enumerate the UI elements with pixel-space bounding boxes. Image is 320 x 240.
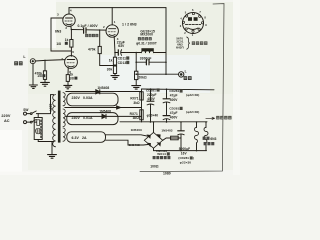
triode V1a (lower SRPP, 1/2 6N3) [65,56,78,69]
svg-text:(CD281: (CD281 [178,156,189,160]
svg-text:AC: AC [4,119,10,123]
ground chassis [48,155,57,159]
svg-text:230V 0.03A: 230V 0.03A [72,96,93,100]
node D junction [114,65,116,67]
wire to chassis ground [51,142,53,155]
svg-text:400V: 400V [147,97,155,101]
svg-text:1N5408: 1N5408 [99,110,111,114]
wire SRPP feedback loop [51,18,71,51]
svg-text:4: 4 [70,8,72,12]
wire center tap [65,107,142,109]
svg-text:): ) [193,156,194,160]
svg-text:220V: 220V [49,104,53,112]
svg-text:3300pF: 3300pF [140,57,152,61]
wire V2 cathode to node C [113,37,116,53]
transformer T1 secondary 3 winding [63,128,65,141]
inductor L1 0.31/1000T with core [141,48,153,51]
resistor R5 1k [113,57,116,65]
svg-text:400V: 400V [170,116,178,120]
svg-text:230V 0.01A: 230V 0.01A [72,116,93,120]
node G junction [135,61,137,63]
resistor R9 RX71 3k [140,110,143,120]
svg-text:L: L [185,70,187,74]
wire C1 to V2 grid [86,29,106,31]
svg-text:2: 2 [65,26,67,30]
svg-text:220V: 220V [1,114,10,118]
svg-text:6: 6 [72,50,74,54]
wire node A to C1 [71,29,83,31]
svg-text:6H3Π: 6H3Π [176,45,184,49]
resistor R8 RX71 3k [140,92,143,100]
transformer T1 core [58,91,61,143]
label film cap CJK [85,34,98,37]
svg-text:φ0.31 / 1000T: φ0.31 / 1000T [136,42,157,46]
capacitor C1 0.1uF/400V coupling [83,28,85,33]
capacitor C3 3300pF [146,60,149,65]
svg-text:1080: 1080 [163,171,171,175]
transformer T1 primary winding [53,95,56,147]
svg-text:7: 7 [61,57,63,61]
switch SW [27,114,31,123]
wire node C to C2 [115,52,118,54]
svg-text:1 / 2 6N3: 1 / 2 6N3 [122,23,137,27]
heater winding symbol 2 [205,122,207,127]
ground V1a [64,85,72,88]
wire R3 to ground [67,81,69,85]
secondary 3 loop 6.3V 2A [67,132,106,143]
svg-text:1k: 1k [109,58,113,62]
wire node E down to R7 [135,62,137,71]
label pinout CJK [192,41,208,45]
label neon lamp CJK vertical [40,120,42,138]
resistor R3 1k cathode [66,75,69,82]
node H junction output tap [135,73,137,75]
output terminal [179,72,184,77]
wire L1 to right rail [154,52,166,54]
transformer T1 secondary 2 winding [63,109,65,127]
label rectifier CJK row2 [153,156,171,159]
svg-text:CD281: CD281 [146,88,156,92]
wire output line [136,73,178,75]
wire input node down to R1 [44,60,46,70]
wire V2 plate lead [111,8,113,25]
wire bridge DC- rail [154,148,207,150]
arrow to other channel [206,117,215,119]
svg-text:2: 2 [103,25,105,29]
wire 6.3V to bridge AC2 [106,140,149,145]
label heaters CJK filament [204,142,215,145]
node I junction [165,73,167,75]
svg-text:(φ22×30): (φ22×30) [186,93,199,97]
rectifier wire HV1 [66,91,142,93]
wire V1a cathode [67,68,69,75]
wire V1b grid lead [58,17,63,19]
svg-text:47μF: 47μF [170,111,178,115]
resistor R7 20k [135,71,138,79]
capacitor C5 47uF/400V [166,89,168,122]
svg-text:(φ22×30): (φ22×30) [186,110,199,114]
label heaters CJK 6N3 [203,137,210,140]
capacitor C2 22uF/63V electrolytic [117,50,119,55]
wire tank left vertical [135,53,137,63]
label shuru input CJK [14,61,22,65]
svg-text:3: 3 [57,13,59,17]
ground R7 [132,86,141,90]
svg-text:6N3: 6N3 [210,137,216,141]
wire node A down to R2 [70,30,72,40]
svg-text:φ30×40: φ30×40 [147,113,159,117]
wire R7 to ground [135,80,137,86]
resistor R1 470k input [43,71,46,80]
svg-text:1N5408: 1N5408 [97,86,109,90]
capacitor C6 47uF/400V [163,115,170,117]
wire V1a grid lead from input [35,60,65,61]
svg-text:3kΩ: 3kΩ [133,116,140,120]
svg-text:MX2000: MX2000 [140,33,153,37]
svg-text:30k: 30k [107,67,113,71]
heater winding symbol 1 [196,122,198,127]
wire node C down to R5 [114,53,116,58]
svg-text:CD281: CD281 [169,89,179,93]
filter chain vertical [141,89,143,122]
svg-text:CD13: CD13 [118,61,127,65]
wire R6 to ground [114,74,116,76]
svg-text:1/8: 1/8 [69,77,74,81]
svg-text:5000μF: 5000μF [179,147,190,151]
svg-text:6N3: 6N3 [55,29,61,33]
label other channel CJK [216,116,231,120]
wire 6.3V to bridge AC1 [106,135,149,137]
neon indicator lamp box [34,118,42,140]
svg-text:6.3V 2A: 6.3V 2A [72,136,87,140]
triode V1b (upper SRPP, 1/2 6N3) [63,14,75,26]
wire R5 to node D [114,65,116,66]
resistor R6 30k [113,66,116,74]
diode D2 1N5408 [66,115,142,117]
wire right vertical rail to output [165,8,167,75]
svg-text:1k: 1k [65,38,69,42]
node E junction [135,52,137,54]
svg-text:CD11: CD11 [118,57,127,61]
PSU B+ rail [142,88,215,91]
svg-text:100Ω: 100Ω [150,165,159,169]
svg-text:16V: 16V [181,152,188,156]
svg-text:63V: 63V [118,44,125,48]
pinout digits [180,8,207,37]
wire switch low to lamp box [34,121,36,123]
triode V2 (1/2 6N3 cathode follower) [106,25,118,37]
node rail junctions [150,88,152,90]
B+ top rail [69,7,166,9]
wire V1b plate lead [68,8,70,14]
wire C2 to node E [121,52,141,54]
label shuchu output CJK [184,76,192,80]
brace for tube equivalents [187,37,190,49]
wire lamp box bottom to primary bottom [38,140,53,142]
svg-text:400V: 400V [170,98,178,102]
diode D1 1N5408 [96,90,100,94]
svg-text:1/8: 1/8 [37,74,42,78]
wire V1b cathode to node A [70,26,73,30]
svg-text:SW: SW [23,108,28,112]
svg-text:0.1μF / 400V: 0.1μF / 400V [78,24,99,28]
border frame right [140,4,224,172]
svg-text:1N5403: 1N5403 [131,128,142,132]
capacitor C4 220uF/400V [150,89,152,122]
node C junction [114,52,116,54]
svg-text:1N5403: 1N5403 [161,128,172,132]
wire R4 to cathode divider node [100,54,115,66]
svg-text:CD281: CD281 [169,107,179,111]
resistor R4 470k grid leak [98,46,101,53]
svg-text:φ22×30: φ22×30 [180,161,191,165]
svg-text:1: 1 [114,20,116,24]
wire node B down to R4 [99,30,101,46]
ground V2 [111,76,119,80]
svg-text:470k: 470k [88,48,96,52]
svg-text:WX14: WX14 [157,152,166,156]
svg-text:1N5403: 1N5403 [129,143,140,147]
node B junction grid leak [99,29,101,31]
wire R1 to ground [44,79,46,82]
svg-text:3kΩ: 3kΩ [133,101,140,105]
wire bridge DC+ [153,122,155,132]
svg-text:1/8: 1/8 [56,42,61,46]
node A junction [71,29,73,31]
wire R2 to lower plate node [70,47,72,56]
ground input [41,82,50,86]
label choke CJK dark [138,37,152,40]
secondary 2 loop 230V 0.03A [67,113,118,125]
tube socket pinout diagram [182,13,203,34]
secondary 1 loop 230V 0.03A [67,93,118,106]
input terminal L [30,59,35,64]
node F junction [165,61,167,63]
svg-text:20kΩ: 20kΩ [138,75,147,79]
220V AC terminals [24,112,27,115]
capacitor C7 5000uF/16V [180,122,182,151]
transformer T1 secondary 1 winding [63,93,65,106]
PSU bottom rail [120,121,207,123]
bridge rectifier 4x 1N5403 [144,132,162,148]
resistor R2 1k upper cathode [70,40,73,48]
wire bridge right to C7 [163,138,181,140]
wire switch to transformer primary top [36,95,53,114]
svg-text:47μF: 47μF [170,94,178,98]
wire tank bottom [136,61,166,63]
